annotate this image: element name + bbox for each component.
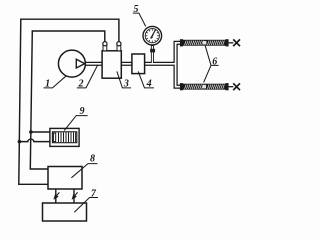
gauge 5 outer case: [143, 26, 162, 45]
svg-text:4: 4: [146, 79, 152, 90]
pipe gauge stem: [151, 45, 154, 64]
svg-text:6: 6: [212, 56, 217, 67]
leader 8 with shelf: [71, 164, 97, 178]
indicator 9 outer body: [50, 128, 79, 146]
leader 3 with shelf: [117, 71, 131, 88]
tube 6 lower: body: [183, 84, 225, 89]
valve 4 body: [132, 54, 145, 74]
gauge 5 pivot: [151, 36, 153, 38]
tube 6 upper: left collar: [180, 39, 183, 46]
arrow on right wire: [72, 192, 78, 200]
svg-text:8: 8: [90, 154, 95, 165]
pipe manifold with elbows to tubes: [176, 43, 181, 87]
tube 6 lower: left collar: [180, 83, 183, 90]
leader 5 with shelf: [133, 13, 146, 26]
junction dot on outer wire: [18, 140, 22, 144]
svg-text:9: 9: [80, 106, 85, 117]
leader 4 with shelf: [138, 71, 154, 88]
unit 3 right port stem: [117, 46, 121, 51]
gauge 5 inner dial: [145, 29, 159, 43]
valve cross lower: [233, 83, 240, 90]
unit 3 right port ring: [117, 42, 121, 46]
tube 6 upper: hatching (white): [185, 41, 225, 45]
gauge 5 coupling nut: [150, 49, 155, 53]
leader 2 with shelf: [77, 65, 98, 88]
unit 3 left port ring: [103, 42, 107, 46]
svg-text:3: 3: [123, 79, 129, 90]
pump 1 triangle: [76, 59, 84, 68]
wire to indicator 9 lower terminal (with hop over inner wire): [19, 139, 50, 142]
leader 1 with shelf: [44, 76, 66, 88]
control box 8: [48, 167, 82, 190]
unit 3 left port stem: [103, 46, 107, 51]
pipe white cores: [84, 43, 180, 87]
indicator 9 piston: [53, 133, 55, 141]
tube 6 lower: stub: [229, 86, 234, 88]
tube 6 lower: hatching (white): [185, 85, 225, 89]
leader 7 with shelf: [74, 198, 98, 213]
tube 6 upper: stub: [229, 42, 234, 44]
indicator 9 inner window: [52, 132, 76, 143]
wire inner loop (from left port of unit 3, down left side, to box 8 upper input): [30, 31, 105, 169]
gauge 5 tick marks: [146, 29, 159, 42]
arrow on left wire: [53, 192, 59, 200]
wire outer loop (from right port of unit 3, over top, down left side, to box 8 lower input): [19, 19, 119, 184]
pump 1 circle: [58, 50, 85, 77]
tube 6 upper: mid gap: [203, 41, 206, 45]
leader 6 with shelf, to both tubes: [204, 46, 219, 83]
svg-text:1: 1: [45, 79, 50, 90]
tube 6 lower: mid gap: [203, 85, 206, 89]
svg-text:2: 2: [78, 79, 84, 90]
wire 8 to 7 left: [55, 189, 57, 203]
tube 6 lower: right collar: [225, 83, 228, 90]
power box 7: [43, 203, 87, 221]
junction dot on inner wire: [29, 130, 33, 134]
wire to indicator 9 upper terminal: [31, 131, 51, 133]
pipe main run (pump to manifold, double line): [84, 62, 175, 66]
wire 8 to 7 right: [73, 189, 75, 203]
indicator 9 scale bars: [59, 132, 76, 142]
leader 9 with shelf: [64, 116, 87, 131]
svg-text:5: 5: [134, 4, 139, 15]
unit 3 body: [102, 51, 121, 78]
valve cross upper: [233, 39, 240, 46]
gauge 5 needle: [151, 29, 156, 38]
tube 6 upper: body: [183, 40, 225, 45]
tube 6 upper: right collar: [225, 39, 228, 46]
